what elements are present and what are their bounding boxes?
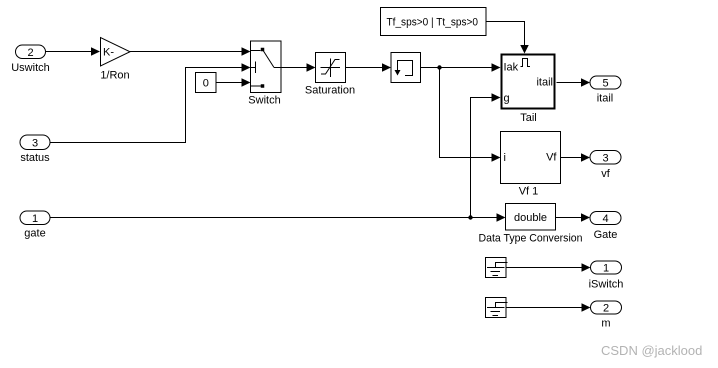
svg-text:CSDN @jacklood: CSDN @jacklood (601, 343, 702, 358)
svg-text:4: 4 (602, 213, 608, 225)
svg-text:Uswitch: Uswitch (11, 62, 50, 74)
wire Uswitch to gain (46, 47, 101, 56)
svg-text:gate: gate (24, 228, 45, 240)
svg-text:0: 0 (203, 78, 209, 90)
svg-text:1/Ron: 1/Ron (100, 70, 129, 82)
wire gain to switch top (130, 47, 251, 56)
svg-text:Data Type Conversion: Data Type Conversion (479, 233, 583, 245)
outport 5 itail (590, 76, 621, 105)
svg-text:1: 1 (32, 213, 38, 225)
outport 3 vf (590, 151, 621, 181)
wire switch to saturation (281, 63, 316, 72)
svg-text:status: status (20, 152, 50, 164)
junction node on gate wire (468, 215, 472, 219)
ground block 1 (486, 258, 508, 278)
svg-text:m: m (601, 318, 610, 330)
svg-text:3: 3 (602, 153, 608, 165)
wire junction to Vf1 i (440, 68, 501, 162)
switch block (248, 41, 281, 107)
svg-text:Gate: Gate (594, 229, 618, 241)
subsystem Vf 1 (501, 132, 561, 198)
watermark CSDN (601, 343, 702, 358)
wire constant to switch bottom (216, 78, 251, 87)
svg-text:Saturation: Saturation (305, 85, 355, 97)
svg-text:iSwitch: iSwitch (589, 279, 624, 291)
wire gate to data type conversion (50, 213, 506, 222)
constant 0 (196, 73, 217, 93)
wire Tf_sps block to Tail top (486, 22, 529, 54)
svg-text:1: 1 (603, 263, 609, 275)
wire ground1 to outport 1 (506, 263, 591, 272)
wire Vf1 to outport 3 (561, 153, 591, 162)
constant string Tf_sps block (381, 8, 487, 36)
junction node on Iak wire (437, 65, 441, 69)
ground block 2 (486, 298, 508, 318)
svg-text:i: i (504, 152, 506, 164)
outport 2 m (591, 301, 622, 330)
outport 1 iSwitch (589, 261, 624, 291)
svg-text:K-: K- (103, 47, 114, 59)
svg-text:3: 3 (32, 138, 38, 150)
saturation block (305, 53, 355, 97)
svg-text:Iak: Iak (504, 62, 519, 74)
svg-text:5: 5 (602, 78, 608, 90)
svg-text:Tail: Tail (520, 112, 537, 124)
wire double to outport 4 (556, 213, 591, 222)
outport 4 Gate (590, 212, 621, 242)
data type conversion block double (479, 204, 583, 245)
wire Tail itail to outport 5 (557, 78, 591, 87)
wire status to switch middle (50, 63, 251, 142)
inport 1 gate (20, 211, 50, 240)
svg-text:2: 2 (603, 303, 609, 315)
wire junction to Tail g (471, 93, 501, 217)
svg-text:Vf: Vf (546, 152, 557, 164)
svg-text:itail: itail (597, 93, 614, 105)
svg-text:Vf 1: Vf 1 (519, 186, 539, 198)
svg-text:Tf_sps>0 | Tt_sps>0: Tf_sps>0 | Tt_sps>0 (387, 17, 479, 29)
subsystem Tail (502, 55, 555, 125)
svg-text:vf: vf (601, 168, 611, 180)
svg-text:itail: itail (536, 77, 553, 89)
memory loop block (391, 53, 421, 83)
svg-text:2: 2 (27, 47, 33, 59)
svg-text:Switch: Switch (248, 95, 280, 107)
svg-text:double: double (514, 212, 547, 224)
wire saturation to memory (346, 63, 392, 72)
inport 3 status (20, 135, 50, 164)
svg-text:g: g (504, 93, 510, 105)
wire ground2 to outport 2 (506, 303, 591, 312)
gain U 1/Ron (100, 38, 130, 82)
inport 2 Uswitch (11, 45, 50, 74)
wire memory to Tail Iak (421, 63, 501, 72)
